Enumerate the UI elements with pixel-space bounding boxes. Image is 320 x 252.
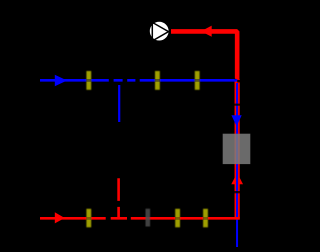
arrow: red left-pointing arrow on pump line	[201, 26, 212, 37]
pump P1: circle body	[149, 21, 169, 41]
tick crossing shade V4	[86, 217, 91, 220]
valve V5: dark gray tick on bottom red line	[146, 209, 151, 227]
valve V4: yellow tick on bottom red line	[86, 209, 91, 228]
valve V2: yellow tick on blue line	[155, 71, 160, 90]
tick crossing shade V7	[203, 217, 208, 220]
wire: red corner patch over riser at bottom junction	[235, 217, 240, 220]
wire: red riser (return/flow column) x=237 from y=79 to y=218	[235, 79, 240, 219]
wire: red dashed vertical stub at x=119 rising from bottom line	[117, 178, 120, 218]
tick crossing shade V2	[155, 79, 160, 82]
valve V1: yellow tick on blue line	[86, 71, 91, 90]
wire: blue top return line y=80.3 (with dashed middle section)	[40, 79, 237, 82]
wire: blue vertical stub at x=119 dropping from top line	[118, 85, 120, 122]
heat exchanger: translucent gray box over riser	[223, 134, 251, 164]
valve V7: yellow tick on bottom red line	[203, 209, 208, 228]
pump P1: direction triangle	[152, 22, 168, 41]
dash gap on riser (upper)	[234, 104, 240, 106]
tick crossing shade V1	[86, 79, 91, 82]
arrow: red right-pointing arrow on bottom line	[55, 212, 65, 223]
junction notch artifact right of blue line end	[237, 80, 240, 83]
wire: bottom red supply line y=218 (with dashed middle section)	[40, 217, 240, 220]
junction bevel artifact on thick red column	[234, 78, 236, 80]
valve V6: yellow tick on bottom red line	[175, 209, 180, 228]
wire: thick red pump line from pump to top-right corner then down	[171, 31, 237, 79]
arrow: red up-pointing arrow on riser below heat exchanger	[231, 173, 243, 184]
arrow: blue right-pointing arrow on top line	[55, 75, 67, 86]
tick crossing shade V3	[195, 79, 200, 82]
wire: blue core line inside riser x=237 down to bottom edge	[236, 83, 238, 247]
valve V3: yellow tick on blue line	[195, 71, 200, 90]
tick crossing shade V6	[175, 217, 180, 220]
arrow: blue down-pointing arrow on riser above heat exchanger	[231, 115, 241, 126]
dash gap on riser (lower)	[234, 191, 240, 193]
